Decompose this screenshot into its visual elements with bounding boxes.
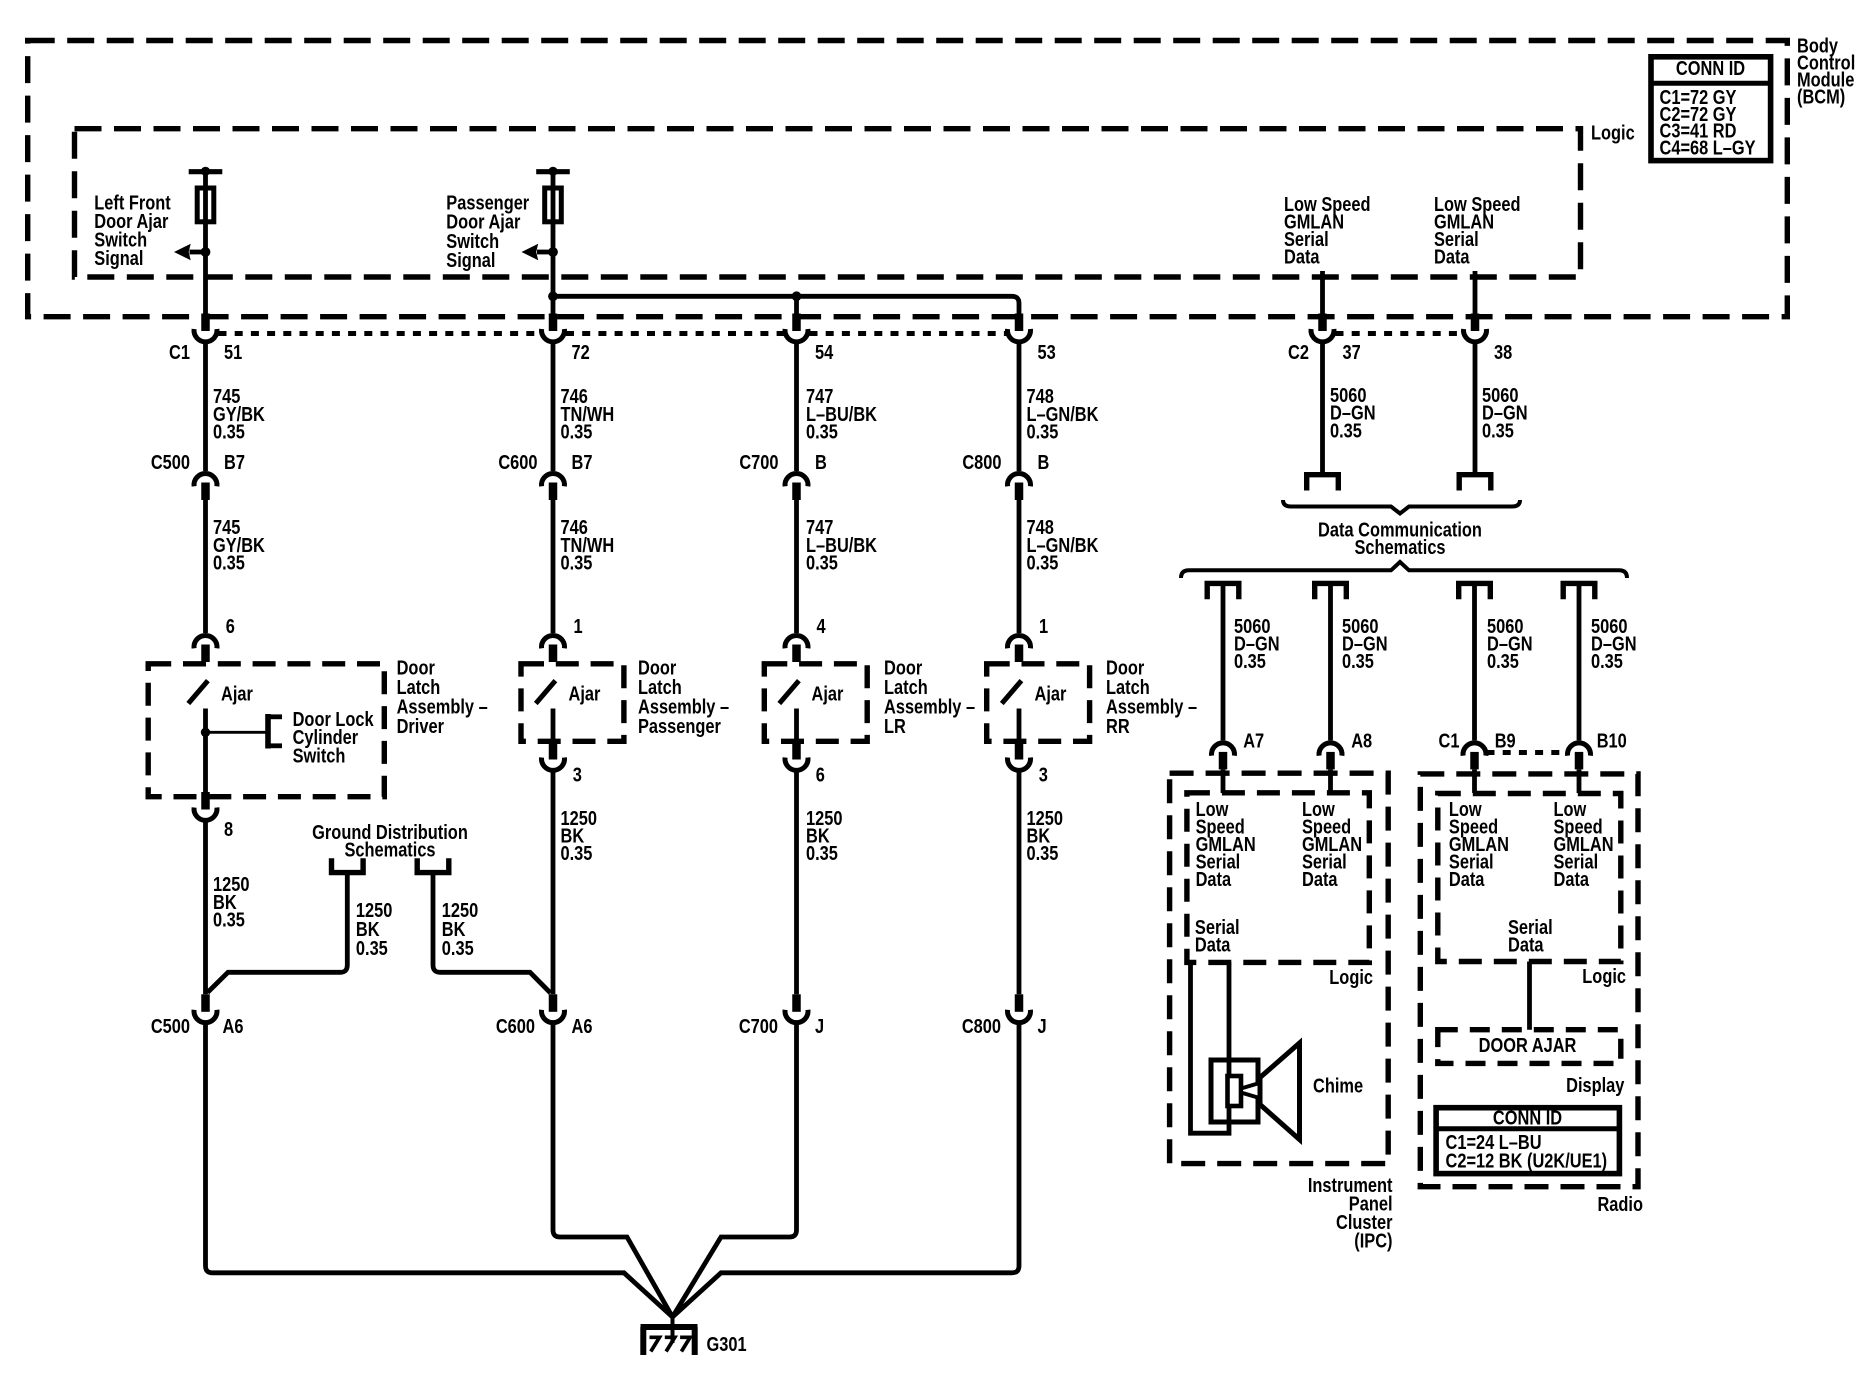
wire B9 stub [1472, 770, 1477, 794]
svg-text:Logic: Logic [1329, 965, 1373, 988]
svg-text:72: 72 [572, 340, 590, 363]
connector C1 pin 54 [792, 314, 801, 332]
svg-text:B10: B10 [1597, 729, 1627, 752]
svg-text:51: 51 [224, 340, 242, 363]
svg-text:A6: A6 [223, 1014, 244, 1037]
door lock cylinder switch bracket [265, 714, 271, 749]
svg-text:6: 6 [816, 763, 825, 786]
ajar switch RR [1002, 681, 1022, 704]
dotted row 37-38 [1336, 331, 1463, 336]
wire passenger switch to pin 3 [551, 709, 556, 746]
wire 5060 D-GN branch 4 [1577, 586, 1582, 740]
dotted row 54-53 [810, 331, 1007, 336]
svg-text:B9: B9 [1495, 729, 1516, 752]
wire radio logic to display [1527, 962, 1532, 1030]
svg-text:DOOR AJAR: DOOR AJAR [1479, 1033, 1577, 1056]
node T-bar passenger [536, 169, 570, 174]
off-page symbol serial data 4 [1563, 583, 1595, 599]
wire 5060 D-GN branch 2 [1328, 586, 1333, 740]
svg-text:Ajar: Ajar [221, 682, 253, 705]
connector latch RR pin 1 [1008, 635, 1031, 648]
brace data communication upper [1283, 500, 1520, 514]
connector IPC pin A8 [1319, 743, 1342, 756]
wire 1250 BK passenger [551, 770, 556, 995]
svg-text:37: 37 [1343, 340, 1361, 363]
wire RR switch to pin 3 [1017, 709, 1022, 746]
node T-bar left front [189, 169, 223, 174]
connector latch passenger pin 1 [542, 635, 565, 648]
door latch assembly LR dashed box [764, 664, 867, 742]
wire W3 to ground [673, 1021, 797, 1317]
off-page symbol serial data 2 [1315, 583, 1347, 599]
svg-text:6: 6 [226, 614, 235, 637]
svg-text:54: 54 [815, 340, 834, 363]
svg-text:C700: C700 [739, 1014, 778, 1037]
connector C500 pin B7 [194, 473, 217, 486]
connector C1 pin 51 [201, 314, 210, 332]
connector C2 pin 37 [1318, 314, 1327, 332]
svg-text:CONN ID: CONN ID [1493, 1106, 1562, 1129]
wire 5060 D-GN 38 [1473, 342, 1478, 474]
wire 747 L-BU/BK upper [794, 342, 799, 472]
ajar switch driver [188, 681, 208, 704]
connector latch driver pin 6 [194, 635, 217, 648]
svg-text:B: B [815, 450, 827, 473]
resistor left front door ajar switch [197, 188, 214, 222]
wire 745 GY/BK lower [203, 499, 208, 633]
wire W3 from branch [794, 296, 799, 313]
svg-text:C1: C1 [169, 340, 190, 363]
node branch at W3 [792, 291, 802, 301]
dotted row 72-54 [566, 331, 784, 336]
connector passenger pin 3 [549, 742, 558, 760]
ajar switch passenger [536, 681, 556, 704]
wire 1250 BK RR [1017, 770, 1022, 995]
BCM Logic dashed box [75, 129, 1581, 277]
svg-text:1: 1 [574, 614, 583, 637]
chime speaker [1211, 1060, 1258, 1122]
wire 746 TN/WH upper [551, 342, 556, 472]
connector C1 pin 53 [1015, 314, 1024, 332]
off-page symbol serial data 1 [1207, 583, 1239, 599]
connector latch LR pin 4 [785, 635, 808, 648]
svg-text:J: J [1038, 1014, 1047, 1037]
wire 5060 D-GN branch 1 [1221, 586, 1226, 740]
connector C700 pin J [792, 994, 801, 1012]
wire W2 to ground [553, 1021, 673, 1317]
svg-text:4: 4 [817, 614, 827, 637]
wire chime loop [1191, 962, 1230, 1133]
connector IPC pin A7 [1212, 743, 1235, 756]
dotted connector row C1 [219, 331, 541, 336]
svg-text:C800: C800 [962, 1014, 1001, 1037]
ground G301 symbol [641, 1324, 698, 1330]
off-page symbol serial data 3 [1459, 583, 1491, 599]
CONN ID table (radio) [1436, 1108, 1619, 1174]
svg-text:C500: C500 [151, 450, 190, 473]
svg-text:A6: A6 [572, 1014, 593, 1037]
wire B10 stub [1577, 770, 1582, 794]
svg-text:B: B [1038, 450, 1050, 473]
wire A7 stub [1221, 770, 1226, 794]
off-page symbol data comm 38 [1459, 475, 1491, 491]
node branch at W2 [548, 291, 558, 301]
svg-text:53: 53 [1038, 340, 1056, 363]
svg-text:A7: A7 [1243, 729, 1264, 752]
arrow left front signal [190, 250, 206, 255]
svg-text:Radio: Radio [1597, 1192, 1643, 1215]
connector C600 pin A6 [549, 994, 558, 1012]
svg-text:C800: C800 [962, 450, 1001, 473]
wire to door lock cylinder switch [206, 731, 267, 734]
svg-text:Chime: Chime [1313, 1074, 1363, 1097]
wire 747 L-BU/BK lower [794, 499, 799, 633]
svg-text:Ajar: Ajar [569, 682, 601, 705]
connector C600 pin B7 [542, 473, 565, 486]
Radio logic dashed box [1438, 794, 1621, 962]
connector C800 pin B [1008, 473, 1031, 486]
svg-text:1: 1 [1039, 614, 1048, 637]
wire C2-38 internal [1473, 271, 1478, 314]
svg-text:Ajar: Ajar [812, 682, 844, 705]
connector C800 pin J [1015, 994, 1024, 1012]
svg-text:Ajar: Ajar [1035, 682, 1067, 705]
wire driver switch to pin 8 [203, 709, 208, 796]
wire 746 TN/WH lower [551, 499, 556, 633]
wire W1 BCM internal [203, 171, 208, 313]
Radio dashed box [1420, 774, 1638, 1187]
off-page symbol ground distribution right [417, 858, 449, 872]
wire 1250 BK gd-left [208, 873, 348, 993]
svg-text:B7: B7 [224, 450, 245, 473]
svg-text:8: 8 [224, 817, 233, 840]
connector LR pin 6 [792, 742, 801, 760]
node door lock junction [201, 728, 210, 737]
CONN ID table (BCM) [1651, 57, 1771, 161]
wire branch to LR and RR [553, 296, 1019, 313]
off-page symbol data comm 37 [1307, 475, 1339, 491]
door latch assembly RR dashed box [987, 664, 1090, 742]
connector radio pin B10 [1568, 743, 1591, 756]
wire 1250 BK gd-right [433, 873, 551, 993]
svg-text:CONN ID: CONN ID [1676, 56, 1745, 79]
svg-text:A8: A8 [1351, 729, 1372, 752]
wire W1 to ground bus [206, 1021, 673, 1317]
connector C2 pin 38 [1471, 314, 1480, 332]
svg-text:C2: C2 [1288, 340, 1309, 363]
wire W2 BCM internal [551, 171, 556, 313]
wire 5060 D-GN branch 3 [1472, 586, 1477, 740]
svg-text:B7: B7 [572, 450, 593, 473]
svg-text:C600: C600 [496, 1014, 535, 1037]
arrow passenger signal [537, 250, 553, 255]
off-page symbol ground distribution left [332, 858, 364, 872]
IPC dashed box [1170, 773, 1389, 1163]
svg-text:J: J [815, 1014, 824, 1037]
door latch assembly passenger dashed box [521, 664, 624, 742]
connector C1 pin 72 [549, 314, 558, 332]
wire 748 L-GN/BK upper [1017, 342, 1022, 472]
svg-text:C700: C700 [739, 450, 778, 473]
connector RR pin 3 [1015, 742, 1024, 760]
svg-text:G301: G301 [707, 1332, 747, 1355]
BCM module dashed box [28, 41, 1788, 317]
dotted row B9-B10 [1487, 750, 1568, 755]
wire A8 stub [1328, 770, 1333, 794]
connector driver pin 8 [201, 792, 210, 810]
IPC logic dashed box [1187, 793, 1369, 963]
svg-text:C1: C1 [1439, 729, 1460, 752]
ajar switch LR [779, 681, 799, 704]
svg-text:38: 38 [1494, 340, 1512, 363]
wire 1250 BK LR [794, 770, 799, 995]
connector C700 pin B [785, 473, 808, 486]
DOOR AJAR dashed box [1438, 1030, 1621, 1064]
door latch assembly driver dashed box [148, 664, 384, 797]
svg-text:Logic: Logic [1582, 964, 1626, 987]
connector radio pin B9 [1463, 743, 1486, 756]
brace data communication lower [1181, 562, 1627, 578]
resistor passenger door ajar switch [545, 188, 562, 222]
wire C2-37 internal [1320, 271, 1325, 314]
svg-text:C600: C600 [498, 450, 537, 473]
svg-text:3: 3 [1039, 763, 1048, 786]
connector C500 pin A6 [201, 994, 210, 1012]
wire 745 GY/BK upper [203, 342, 208, 472]
wire W4 to ground bus [673, 1021, 1020, 1317]
svg-text:Logic: Logic [1591, 121, 1635, 144]
wire 5060 D-GN 37 [1320, 342, 1325, 474]
svg-text:Display: Display [1566, 1073, 1625, 1096]
svg-text:3: 3 [573, 763, 582, 786]
wire 748 L-GN/BK lower [1017, 499, 1022, 633]
wire 1250 BK driver [203, 820, 208, 995]
wire ground stub [671, 1316, 675, 1343]
wire LR switch to pin 6 [794, 709, 799, 746]
svg-text:C500: C500 [151, 1014, 190, 1037]
